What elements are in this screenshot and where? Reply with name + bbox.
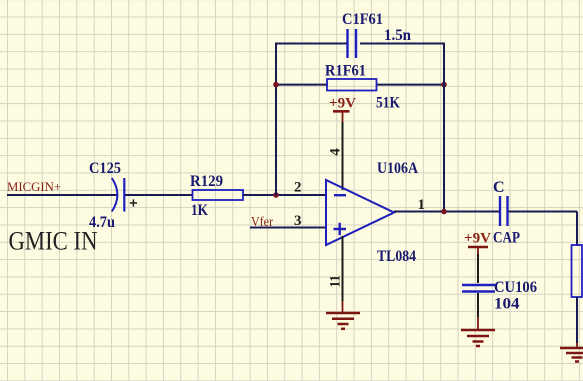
svg-text:1.5n: 1.5n bbox=[384, 27, 411, 44]
label C bbox=[493, 179, 505, 196]
pin number 2 bbox=[294, 180, 302, 196]
pin number 4 bbox=[328, 148, 344, 156]
value 104 bbox=[494, 296, 520, 313]
op-amp U106A bbox=[326, 180, 394, 245]
power +9V (decoupling branch) bbox=[464, 231, 491, 255]
label CU106 bbox=[494, 279, 537, 296]
capacitor C125 (polarized) bbox=[112, 178, 137, 212]
wire op-amp output bbox=[394, 211, 499, 213]
ground (op-amp pin 11) bbox=[326, 301, 360, 329]
net label Vfer bbox=[251, 215, 273, 230]
wire pin 11 bbox=[342, 236, 344, 301]
value 1.5n bbox=[384, 27, 411, 44]
pin number 3 bbox=[294, 213, 302, 229]
label TL084 bbox=[377, 248, 416, 265]
pin number 11 bbox=[328, 275, 344, 288]
resistor (right, unlabeled) bbox=[572, 245, 583, 297]
svg-text:Vfer: Vfer bbox=[251, 215, 273, 230]
sheet text GMIC IN bbox=[9, 227, 98, 256]
value 1K bbox=[191, 202, 208, 219]
capacitor C bbox=[500, 196, 508, 226]
wire R1F61 right segment bbox=[376, 84, 445, 86]
wire right resistor to ground bbox=[576, 297, 578, 343]
svg-text:TL084: TL084 bbox=[377, 248, 416, 265]
capacitor C1F61 bbox=[348, 29, 357, 58]
svg-text:4: 4 bbox=[328, 148, 344, 156]
wire down to right resistor bbox=[576, 212, 578, 247]
capacitor CU106 bbox=[462, 285, 495, 292]
net label MICGIN+ bbox=[7, 179, 61, 194]
svg-text:CU106: CU106 bbox=[494, 279, 537, 296]
svg-text:11: 11 bbox=[328, 275, 344, 288]
ground (right) bbox=[560, 343, 583, 362]
svg-text:1K: 1K bbox=[191, 202, 208, 219]
junction at R129/feedback node bbox=[273, 192, 279, 198]
label C125 bbox=[89, 160, 121, 177]
svg-text:R129: R129 bbox=[190, 173, 223, 190]
wire C to right resistor bbox=[509, 211, 578, 213]
value CAP bbox=[493, 230, 520, 247]
junction feedback right node bbox=[441, 82, 447, 88]
label U106A bbox=[377, 160, 418, 177]
resistor R129 bbox=[193, 190, 244, 200]
svg-text:104: 104 bbox=[494, 296, 520, 313]
label R129 bbox=[190, 173, 223, 190]
wire CU106 to ground bbox=[477, 293, 479, 317]
resistor R1F61 bbox=[327, 79, 377, 91]
wire R1F61 left segment bbox=[275, 84, 328, 86]
wire R129 to op-amp pin 2 bbox=[243, 194, 326, 196]
power +9V (op-amp supply) bbox=[329, 96, 356, 123]
junction output node bbox=[441, 209, 447, 215]
value 4.7u bbox=[89, 214, 115, 231]
wire net MICGIN+ (input wire) bbox=[7, 194, 117, 196]
wire top feedback right segment bbox=[360, 43, 445, 45]
ground (decoupling) bbox=[461, 317, 495, 346]
svg-text:51K: 51K bbox=[376, 95, 400, 112]
junction feedback left node bbox=[273, 82, 279, 88]
wire feedback left vertical bbox=[275, 44, 277, 196]
wire C125 to R129 bbox=[125, 194, 193, 196]
wire top feedback left segment bbox=[275, 43, 347, 45]
svg-text:2: 2 bbox=[294, 180, 302, 196]
svg-text:1: 1 bbox=[418, 197, 426, 213]
svg-text:GMIC IN: GMIC IN bbox=[9, 227, 98, 256]
svg-text:C125: C125 bbox=[89, 160, 121, 177]
svg-text:C1F61: C1F61 bbox=[342, 11, 383, 28]
svg-text:C: C bbox=[493, 179, 505, 196]
svg-text:3: 3 bbox=[294, 213, 302, 229]
wire +9V to CU106 bbox=[477, 254, 479, 283]
label C1F61 bbox=[342, 11, 383, 28]
svg-text:CAP: CAP bbox=[493, 230, 520, 247]
pin number 1 bbox=[418, 197, 426, 213]
svg-text:+9V: +9V bbox=[329, 96, 356, 112]
wire pin 4 bbox=[342, 122, 344, 190]
svg-text:MICGIN+: MICGIN+ bbox=[7, 179, 61, 194]
svg-text:R1F61: R1F61 bbox=[325, 63, 366, 80]
wire feedback right vertical bbox=[443, 44, 445, 212]
svg-text:U106A: U106A bbox=[377, 160, 418, 177]
label R1F61 bbox=[325, 63, 366, 80]
svg-text:+9V: +9V bbox=[464, 231, 491, 247]
value 51K bbox=[376, 95, 400, 112]
wire Vfer to op-amp pin 3 bbox=[250, 227, 326, 229]
